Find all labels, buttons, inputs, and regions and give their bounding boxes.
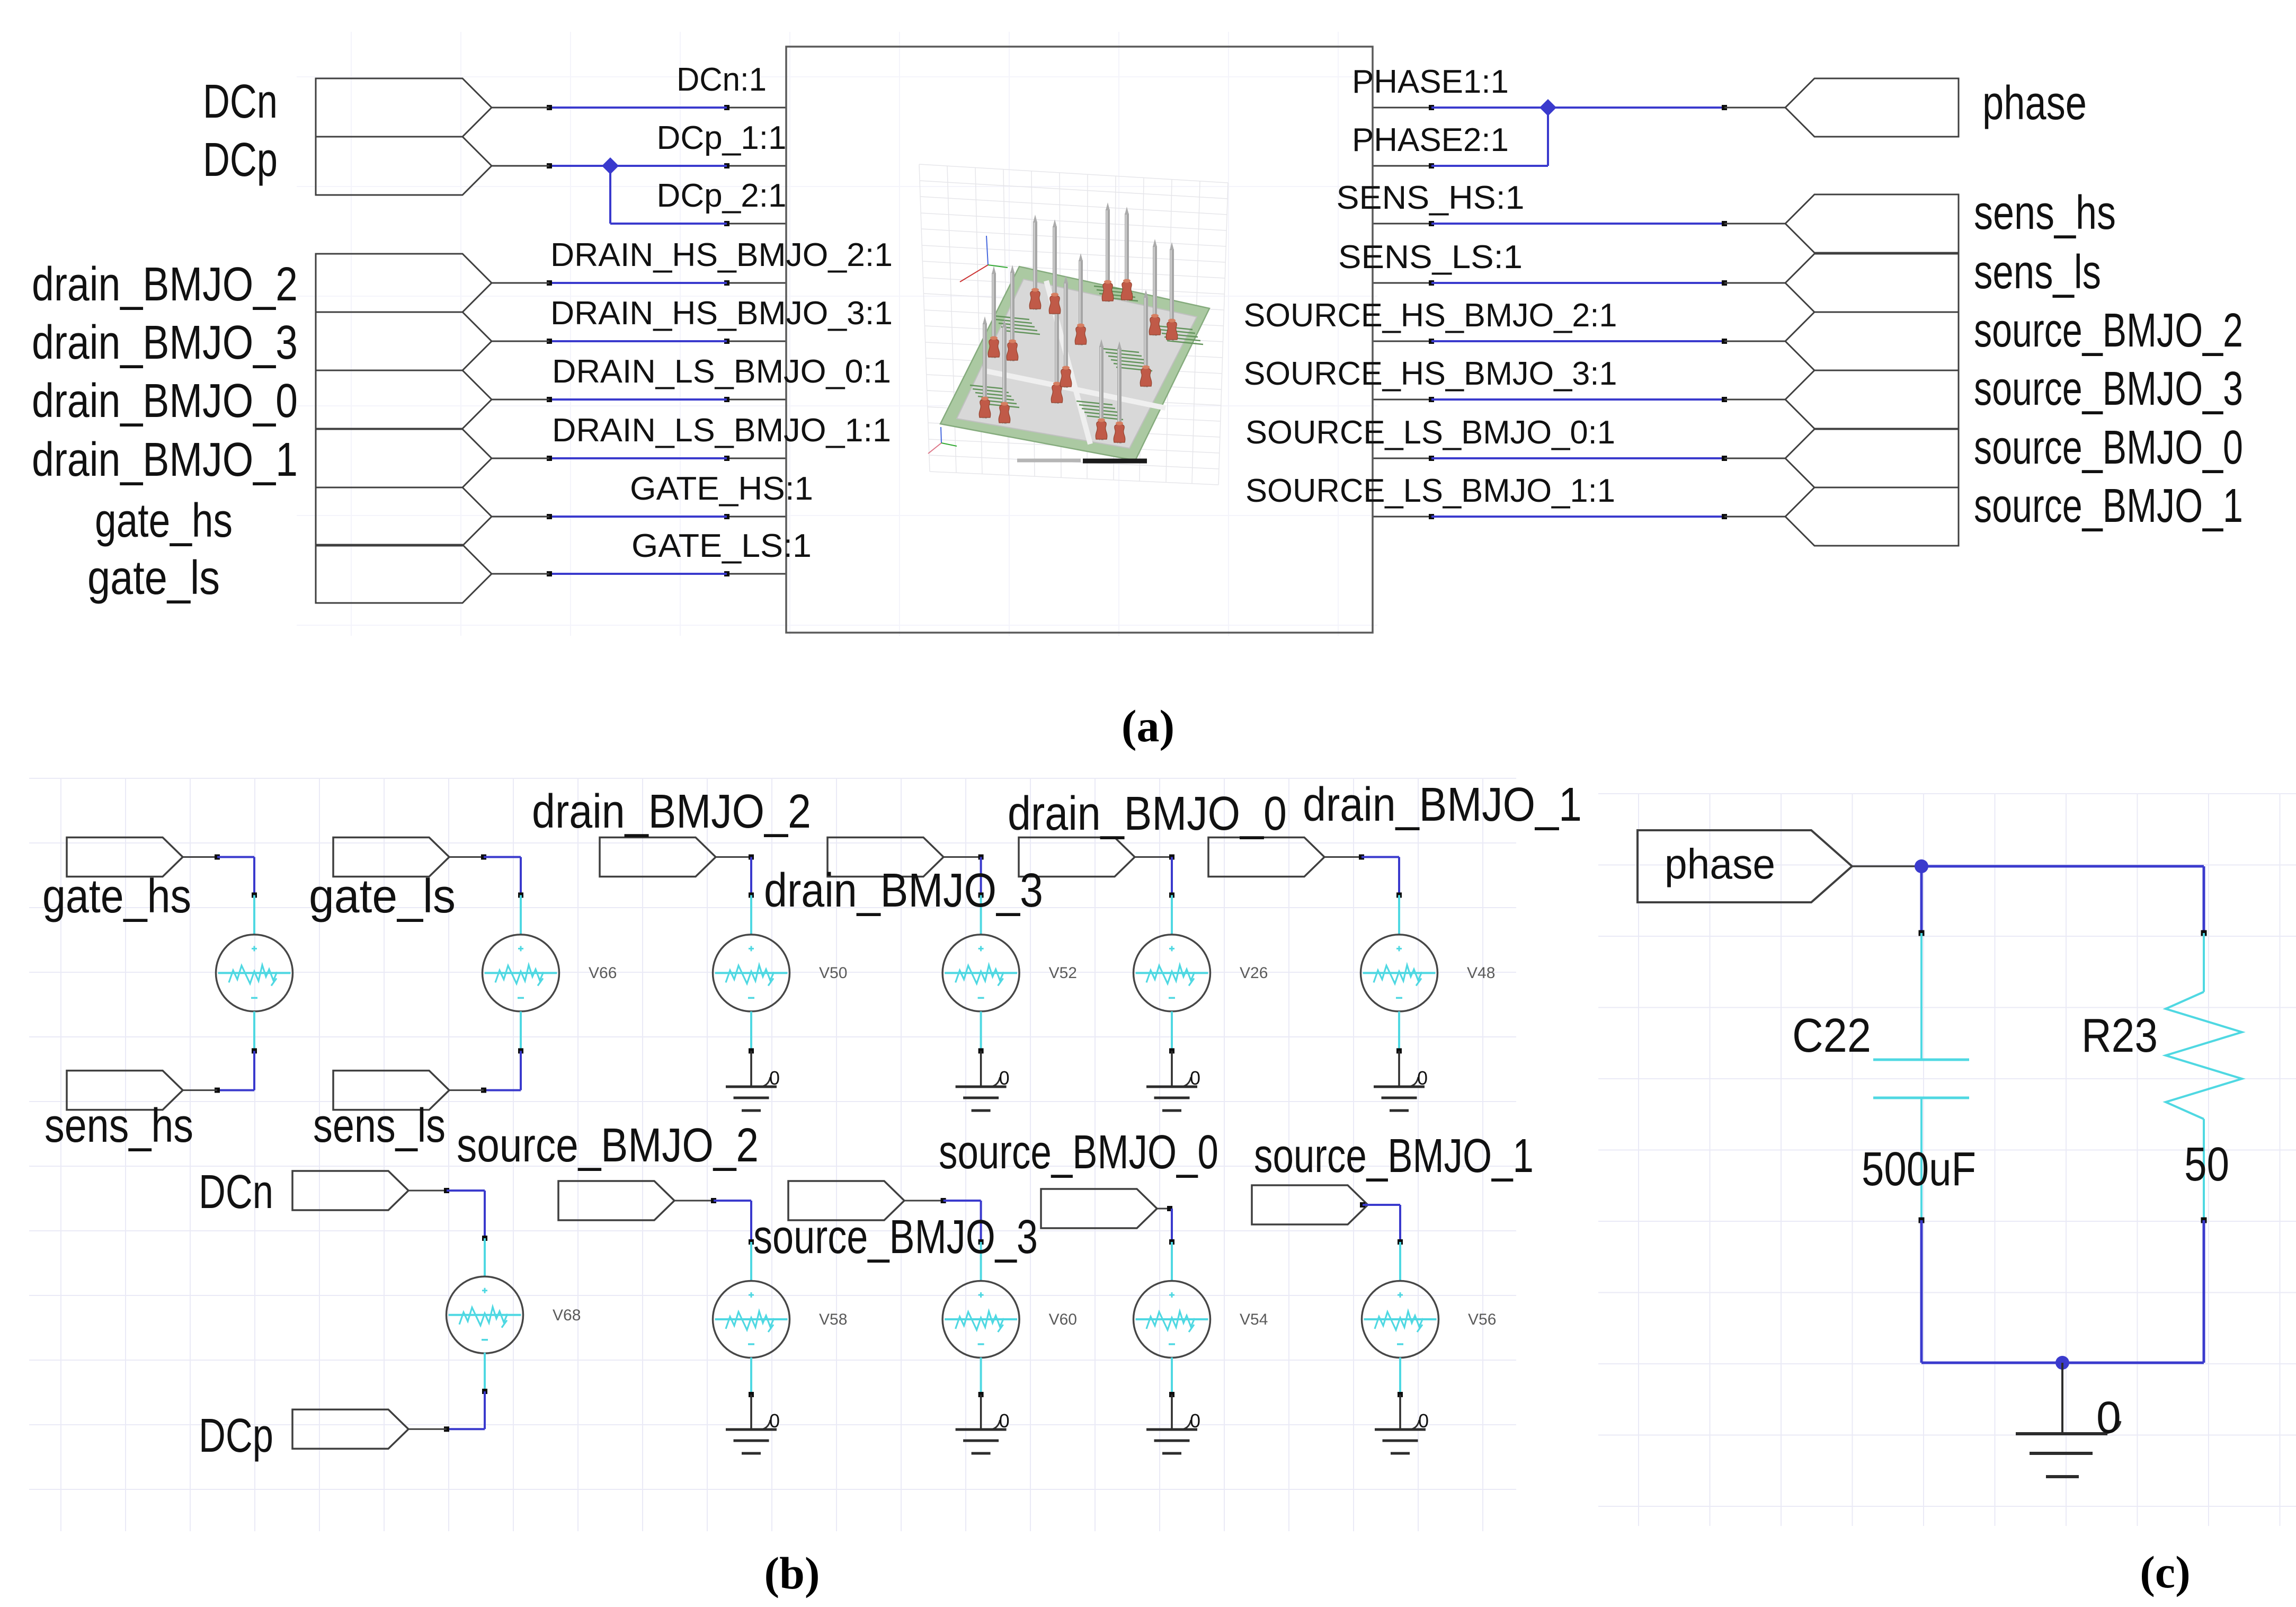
svg-text:0: 0 — [999, 1067, 1010, 1089]
svg-text:V66: V66 — [589, 964, 617, 982]
svg-text:gate_hs: gate_hs — [42, 870, 191, 923]
svg-text:0: 0 — [1417, 1067, 1428, 1089]
svg-text:SOURCE_HS_BMJO_3:1: SOURCE_HS_BMJO_3:1 — [1244, 356, 1617, 392]
svg-text:source_BMJO_1: source_BMJO_1 — [1254, 1130, 1534, 1183]
svg-text:50: 50 — [2184, 1138, 2229, 1191]
svg-text:DCp: DCp — [203, 134, 278, 187]
svg-text:source_BMJO_3: source_BMJO_3 — [753, 1211, 1038, 1264]
svg-text:GATE_LS:1: GATE_LS:1 — [631, 528, 812, 564]
svg-text:V58: V58 — [819, 1311, 847, 1328]
svg-text:source_BMJO_2: source_BMJO_2 — [1974, 304, 2243, 357]
svg-text:V52: V52 — [1049, 964, 1077, 982]
svg-text:DRAIN_HS_BMJO_3:1: DRAIN_HS_BMJO_3:1 — [550, 295, 893, 332]
svg-text:DCp_1:1: DCp_1:1 — [657, 120, 787, 156]
svg-text:V60: V60 — [1049, 1311, 1077, 1328]
svg-text:DCp_2:1: DCp_2:1 — [657, 177, 787, 214]
svg-text:drain_BMJO_3: drain_BMJO_3 — [764, 864, 1043, 917]
svg-text:drain_BMJO_1: drain_BMJO_1 — [32, 433, 298, 486]
svg-text:(a): (a) — [1122, 700, 1174, 751]
svg-text:sens_hs: sens_hs — [45, 1099, 193, 1152]
svg-text:SENS_HS:1: SENS_HS:1 — [1337, 180, 1525, 216]
svg-text:drain_BMJO_0: drain_BMJO_0 — [1008, 787, 1287, 840]
svg-text:DRAIN_LS_BMJO_0:1: DRAIN_LS_BMJO_0:1 — [552, 353, 891, 390]
svg-text:phase: phase — [1665, 840, 1775, 887]
svg-text:PHASE1:1: PHASE1:1 — [1352, 64, 1509, 100]
svg-text:drain_BMJO_2: drain_BMJO_2 — [32, 258, 298, 311]
svg-text:(b): (b) — [764, 1548, 820, 1599]
svg-text:(c): (c) — [2140, 1547, 2190, 1597]
svg-text:SOURCE_LS_BMJO_1:1: SOURCE_LS_BMJO_1:1 — [1245, 473, 1615, 509]
svg-text:source_BMJO_0: source_BMJO_0 — [939, 1126, 1218, 1179]
svg-text:SOURCE_HS_BMJO_2:1: SOURCE_HS_BMJO_2:1 — [1244, 297, 1617, 334]
svg-text:0: 0 — [1190, 1067, 1200, 1089]
svg-text:V54: V54 — [1240, 1311, 1268, 1328]
svg-text:DCn: DCn — [203, 75, 278, 128]
svg-text:DCn: DCn — [199, 1166, 273, 1219]
svg-text:V48: V48 — [1467, 964, 1495, 982]
svg-text:0: 0 — [769, 1410, 780, 1432]
svg-text:0: 0 — [2096, 1392, 2121, 1442]
svg-text:C22: C22 — [1792, 1009, 1871, 1062]
svg-text:0: 0 — [1190, 1410, 1200, 1432]
svg-text:R23: R23 — [2081, 1009, 2158, 1062]
svg-text:phase: phase — [1982, 77, 2087, 130]
svg-text:drain_BMJO_1: drain_BMJO_1 — [1303, 778, 1582, 831]
svg-text:DRAIN_HS_BMJO_2:1: DRAIN_HS_BMJO_2:1 — [550, 237, 893, 273]
svg-text:0: 0 — [999, 1410, 1010, 1432]
svg-text:SOURCE_LS_BMJO_0:1: SOURCE_LS_BMJO_0:1 — [1245, 414, 1615, 451]
svg-text:DCp: DCp — [199, 1409, 273, 1462]
svg-text:GATE_HS:1: GATE_HS:1 — [630, 470, 813, 507]
svg-text:V26: V26 — [1240, 964, 1268, 982]
svg-text:source_BMJO_3: source_BMJO_3 — [1974, 362, 2243, 415]
svg-text:V56: V56 — [1468, 1311, 1496, 1328]
svg-text:gate_ls: gate_ls — [87, 552, 220, 605]
svg-text:gate_hs: gate_hs — [95, 494, 233, 547]
svg-text:0: 0 — [1418, 1410, 1429, 1432]
svg-text:500uF: 500uF — [1862, 1143, 1976, 1196]
svg-text:0: 0 — [769, 1067, 780, 1089]
svg-text:V68: V68 — [553, 1307, 581, 1324]
svg-text:source_BMJO_1: source_BMJO_1 — [1974, 480, 2243, 532]
svg-text:DRAIN_LS_BMJO_1:1: DRAIN_LS_BMJO_1:1 — [552, 412, 891, 449]
svg-text:SENS_LS:1: SENS_LS:1 — [1338, 239, 1523, 276]
svg-text:V50: V50 — [819, 964, 847, 982]
svg-text:sens_hs: sens_hs — [1974, 187, 2116, 239]
svg-text:DCn:1: DCn:1 — [677, 61, 767, 98]
svg-text:drain_BMJO_2: drain_BMJO_2 — [532, 785, 811, 838]
svg-text:source_BMJO_2: source_BMJO_2 — [457, 1119, 759, 1172]
svg-text:gate_ls: gate_ls — [309, 870, 456, 923]
svg-text:sens_ls: sens_ls — [1974, 246, 2101, 299]
svg-text:drain_BMJO_0: drain_BMJO_0 — [32, 375, 298, 428]
svg-text:sens_ls: sens_ls — [313, 1099, 446, 1152]
svg-text:source_BMJO_0: source_BMJO_0 — [1974, 421, 2243, 474]
svg-text:PHASE2:1: PHASE2:1 — [1352, 122, 1509, 158]
svg-text:drain_BMJO_3: drain_BMJO_3 — [32, 316, 298, 369]
